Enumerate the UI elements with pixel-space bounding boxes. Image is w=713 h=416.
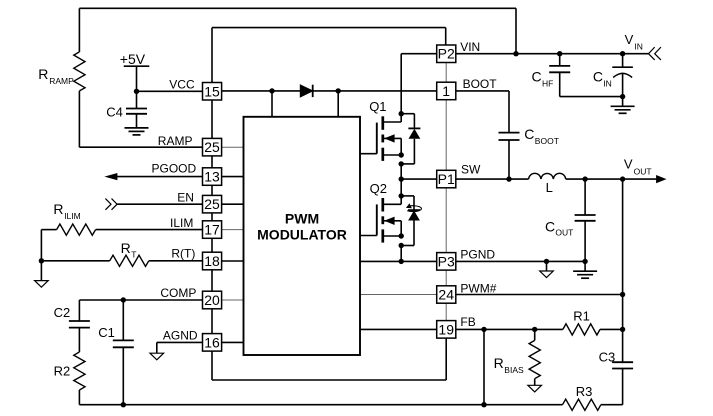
wire stub RAMP to box <box>222 146 244 148</box>
junction SW/Q1/Q2 <box>399 176 404 181</box>
junction PGND ground tap <box>544 259 549 264</box>
wire VOUT feedback drop <box>622 179 624 362</box>
junction VOUT node <box>620 176 625 181</box>
transistor Q1 gate bar <box>376 123 378 154</box>
wire stub R(T) to box <box>222 260 244 262</box>
svg-text:VCC: VCC <box>169 78 195 92</box>
connector V_IN input chevrons <box>649 47 661 60</box>
label R_BIAS <box>494 355 524 375</box>
transistor Q1 drain stub <box>383 54 401 122</box>
resistor R1 <box>563 324 623 335</box>
junction diode line left drop <box>269 88 274 93</box>
svg-text:R2: R2 <box>54 364 71 379</box>
pin box 24 <box>437 286 456 303</box>
svg-text:IN: IN <box>603 78 612 88</box>
wire PGND to signal ground <box>546 261 548 271</box>
ground triangle below R_T node <box>35 281 49 288</box>
resistor R_ILIM <box>41 224 202 235</box>
pin box 17 <box>203 221 222 239</box>
label R_RAMP <box>38 66 74 86</box>
junction +5V/VCC/C4 <box>134 89 139 94</box>
pin box 18 <box>203 252 222 270</box>
junction PWM#/VOUT drop <box>620 292 625 297</box>
wire VIN net <box>456 53 649 55</box>
svg-text:R: R <box>38 66 48 82</box>
svg-text:T: T <box>131 249 136 259</box>
pin box 13 <box>203 168 222 186</box>
transistor Q2 source stub <box>383 235 401 237</box>
wire PWM# stub <box>360 294 437 296</box>
svg-text:C3: C3 <box>599 349 616 364</box>
wire C_IN node to ground <box>622 97 624 107</box>
wire diode cathode to BOOT pin <box>313 90 437 92</box>
svg-text:C: C <box>593 68 603 84</box>
capacitor C3 <box>612 362 633 405</box>
label R_T <box>121 240 137 259</box>
svg-text:16: 16 <box>204 334 220 350</box>
arrow PGOOD output <box>104 173 117 180</box>
transistor Q2 drain stub <box>383 179 401 204</box>
wire EN net <box>117 203 202 205</box>
svg-text:MODULATOR: MODULATOR <box>257 226 347 242</box>
wire VCC-to-P2 rail <box>212 28 446 83</box>
wire stub AGND to box <box>222 341 244 343</box>
label C2 <box>54 305 71 320</box>
label ILIM <box>170 216 193 230</box>
svg-text:HF: HF <box>542 78 553 88</box>
wire R_ILIM to ground node <box>40 230 42 261</box>
wire Q1 drain to P2 <box>401 53 437 55</box>
label R2 <box>54 364 71 379</box>
transistor Q2 gate bar <box>376 204 378 235</box>
pin box 1 <box>437 82 456 100</box>
pin box 20 <box>203 291 222 309</box>
svg-text:BIAS: BIAS <box>504 365 524 375</box>
wire AGND net <box>157 342 203 353</box>
svg-text:R: R <box>494 355 504 371</box>
svg-text:SW: SW <box>461 163 481 177</box>
wire VCC net <box>137 90 203 92</box>
svg-text:R3: R3 <box>576 384 593 399</box>
wire Q2 source to PGND <box>400 246 402 262</box>
label C_HF <box>532 68 554 88</box>
label Q2 <box>370 181 387 196</box>
wire ground lead <box>40 261 42 281</box>
wire FB stub <box>360 328 437 330</box>
capacitor C_BOOT <box>499 133 520 180</box>
label PWM# <box>460 281 496 295</box>
label R_ILIM <box>53 201 80 221</box>
svg-text:V: V <box>624 156 633 171</box>
svg-text:C4: C4 <box>106 105 123 120</box>
label AGND <box>163 329 198 343</box>
label PGND <box>460 248 495 262</box>
svg-text:R: R <box>121 240 131 256</box>
pin box 16 <box>203 334 222 352</box>
resistor R_T <box>41 255 202 266</box>
transistor Q1 channel bars <box>381 116 384 161</box>
ground triangle below R_BIAS <box>528 385 542 392</box>
pin box 15 <box>203 83 222 101</box>
junction R1/VOUT drop <box>620 327 625 332</box>
svg-text:20: 20 <box>204 292 220 308</box>
label PGOOD <box>152 162 197 176</box>
svg-text:VIN: VIN <box>460 40 480 54</box>
wire stub COMP to box <box>222 299 244 301</box>
label C4 <box>106 105 123 120</box>
svg-text:AGND: AGND <box>163 329 198 343</box>
label V_OUT <box>624 156 652 176</box>
transistor Q1 gate lead <box>360 153 377 155</box>
wire stub PGOOD to box <box>222 176 244 178</box>
wire COMP net <box>79 299 202 301</box>
label PWM MODULATOR <box>257 211 347 243</box>
svg-text:P1: P1 <box>438 171 455 187</box>
pin box P2 <box>437 45 456 63</box>
svg-text:RAMP: RAMP <box>49 76 74 86</box>
svg-text:EN: EN <box>177 191 194 205</box>
svg-text:P3: P3 <box>438 253 455 269</box>
svg-text:BOOT: BOOT <box>463 77 498 91</box>
svg-text:BOOT: BOOT <box>535 136 559 146</box>
svg-text:19: 19 <box>438 321 454 337</box>
svg-text:+5V: +5V <box>120 51 146 67</box>
resistor R_RAMP <box>74 8 85 147</box>
wire left pin chain <box>211 100 213 334</box>
wire PGND net right <box>456 260 585 262</box>
svg-text:Q2: Q2 <box>370 181 387 196</box>
capacitor C_IN <box>612 54 633 97</box>
wire right pin chain <box>445 62 447 320</box>
label R3 <box>576 384 593 399</box>
svg-text:R1: R1 <box>573 309 590 324</box>
svg-text:ILIM: ILIM <box>64 211 81 221</box>
junction SW-L/C_OUT <box>582 176 587 181</box>
svg-text:C2: C2 <box>54 305 71 320</box>
wire BOOT net <box>456 91 509 133</box>
label BOOT <box>463 77 498 91</box>
arrow V_OUT output <box>656 175 666 183</box>
svg-text:V: V <box>625 32 634 47</box>
wire drop to PWM box top left <box>271 91 273 117</box>
wire VCC to diode anode <box>222 90 301 92</box>
ground earth below C4 <box>125 128 149 135</box>
label Q1 <box>369 99 386 114</box>
svg-text:FB: FB <box>460 315 475 329</box>
ground triangle below PGND <box>540 271 554 278</box>
wire pin16 to pin19 bottom link <box>212 338 446 380</box>
label VIN <box>460 40 480 54</box>
junction FB drop <box>481 327 486 332</box>
svg-text:PGND: PGND <box>460 248 495 262</box>
svg-text:C1: C1 <box>98 325 115 340</box>
label FB <box>460 315 475 329</box>
junction Q2 source node <box>399 233 404 238</box>
resistor R_BIAS <box>529 329 540 385</box>
junction FB/R_BIAS <box>532 327 537 332</box>
svg-text:P2: P2 <box>438 46 455 62</box>
junction Q2/PGND <box>399 259 404 264</box>
svg-text:C: C <box>545 218 555 234</box>
wire PGND net left <box>360 260 437 262</box>
annotation circulating-current swirl on Q2 body diode <box>406 203 422 211</box>
transistor Q1 body arrow <box>383 134 401 155</box>
diode D1 bootstrap <box>300 85 312 97</box>
wire RAMP net <box>79 146 202 148</box>
wire bottom rail <box>79 404 562 406</box>
svg-text:IN: IN <box>634 41 643 51</box>
wire PWM# net <box>456 294 623 296</box>
capacitor C_OUT <box>575 179 596 261</box>
transistor Q2 body arrow <box>383 217 401 236</box>
svg-text:ILIM: ILIM <box>170 216 193 230</box>
junction COMP/C1 <box>121 297 126 302</box>
junction SW/C_BOOT <box>506 176 511 181</box>
label C1 <box>98 325 115 340</box>
wire FB to bottom rail <box>483 329 485 404</box>
label C3 <box>599 349 616 364</box>
svg-text:OUT: OUT <box>634 166 652 176</box>
wire SW net left <box>401 178 437 180</box>
ground earth below C_IN <box>611 106 635 113</box>
svg-text:Q1: Q1 <box>369 99 386 114</box>
wire SW net right <box>456 178 529 180</box>
svg-text:R(T): R(T) <box>171 247 195 261</box>
junction diode line right drop <box>336 88 341 93</box>
wire Q1 source to SW <box>400 164 402 179</box>
junction Q1 source node <box>399 152 404 157</box>
pin box 19 <box>437 321 456 339</box>
junction Q2 diode return <box>399 243 404 248</box>
svg-text:1: 1 <box>442 83 450 99</box>
label COMP <box>160 286 196 300</box>
body diode of Q2 <box>401 196 420 246</box>
label SW <box>461 163 481 177</box>
svg-text:PWM#: PWM# <box>460 281 496 295</box>
svg-text:RAMP: RAMP <box>158 134 193 148</box>
capacitor C_HF <box>549 54 622 97</box>
power +5V <box>120 51 150 91</box>
wire C_OUT ground lead <box>584 261 586 271</box>
svg-text:C: C <box>524 126 534 142</box>
ground earth below C_OUT <box>573 271 597 278</box>
label EN <box>177 191 194 205</box>
junction C_HF/C_IN ground node <box>620 94 625 99</box>
label V_IN <box>625 32 643 51</box>
label RAMP <box>158 134 193 148</box>
resistor R2 <box>74 352 85 405</box>
junction Q2 drain / body diode tap <box>399 193 404 198</box>
label C_OUT <box>545 218 573 237</box>
svg-text:OUT: OUT <box>555 227 573 237</box>
pin box 25 RAMP <box>203 138 222 156</box>
pin box P1 <box>437 170 456 188</box>
junction VIN/top-rail <box>513 51 518 56</box>
svg-text:25: 25 <box>204 139 220 155</box>
junction VIN/C_HF <box>557 51 562 56</box>
junction VIN/C_IN <box>620 51 625 56</box>
wire stub EN to box <box>222 203 244 205</box>
svg-text:PWM: PWM <box>285 211 319 227</box>
capacitor C4 <box>126 91 147 128</box>
junction C_OUT/PGND <box>582 259 587 264</box>
body diode of Q1 <box>401 114 420 164</box>
transistor Q1 source stub <box>383 154 401 156</box>
pin box P3 <box>437 253 456 271</box>
wire L to VOUT <box>566 178 657 180</box>
svg-text:R: R <box>53 201 63 217</box>
connector EN input chevrons <box>105 199 117 210</box>
junction bottom rail / C1 <box>121 402 126 407</box>
svg-text:25: 25 <box>204 196 220 212</box>
wire FB net <box>456 328 563 330</box>
capacitor C2 <box>69 300 90 352</box>
wire stub ILIM to box <box>222 229 244 231</box>
wire top rail (R_RAMP top to VIN net) <box>79 8 516 53</box>
junction bottom rail / FB drop <box>481 402 486 407</box>
svg-text:15: 15 <box>204 83 220 99</box>
label VCC <box>169 78 195 92</box>
ground triangle AGND <box>150 353 164 360</box>
svg-text:COMP: COMP <box>160 286 196 300</box>
op-amp/IC U1 PWM MODULATOR box <box>244 117 361 355</box>
transistor Q2 gate lead <box>360 235 377 237</box>
svg-text:C: C <box>532 68 542 84</box>
svg-text:13: 13 <box>204 169 220 185</box>
resistor R3 <box>563 399 623 410</box>
pin box 25 EN <box>203 195 222 213</box>
capacitor C1 <box>113 300 134 405</box>
svg-text:17: 17 <box>204 222 220 238</box>
wire drop to PWM box top right <box>337 91 339 117</box>
svg-text:L: L <box>546 180 553 195</box>
junction ILIM/RT ground node <box>39 258 44 263</box>
junction Q1 drain / body diode tap <box>399 111 404 116</box>
junction Q1 diode return <box>399 161 404 166</box>
svg-text:24: 24 <box>438 287 454 303</box>
label C_BOOT <box>524 126 559 146</box>
svg-text:PGOOD: PGOOD <box>152 162 197 176</box>
label R(T) <box>171 247 195 261</box>
inductor L <box>529 173 566 179</box>
label C_IN <box>593 68 612 88</box>
label L <box>546 180 553 195</box>
transistor Q2 channel bars <box>381 198 384 243</box>
label R1 <box>573 309 590 324</box>
svg-text:18: 18 <box>204 253 220 269</box>
wire PGOOD net <box>117 176 203 178</box>
